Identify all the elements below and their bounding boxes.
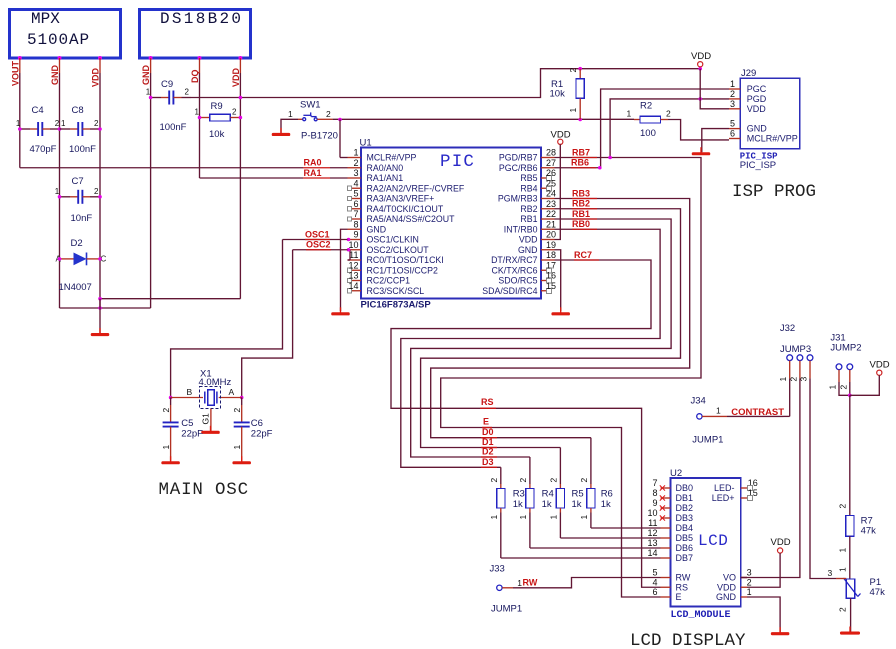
junction crystal B xyxy=(169,396,173,400)
wire VOUT to RA0 row xyxy=(20,167,303,169)
svg-text:VDD: VDD xyxy=(691,51,711,62)
svg-text:12: 12 xyxy=(647,528,657,538)
svg-text:CK/TX/RC6: CK/TX/RC6 xyxy=(492,265,538,275)
svg-text:47k: 47k xyxy=(861,526,877,537)
U2 pin 13 stub xyxy=(661,547,671,549)
diode D2 xyxy=(60,258,74,260)
svg-text:R2: R2 xyxy=(640,101,652,112)
svg-text:470pF: 470pF xyxy=(30,144,57,155)
U1 pin 15 stub xyxy=(541,290,547,292)
svg-text:2: 2 xyxy=(232,108,237,117)
wire RA1 to PIC pin 3 xyxy=(330,177,348,179)
junction rail-VDD symbol xyxy=(698,67,702,71)
J29 pin 1 stub xyxy=(729,88,740,90)
svg-text:2: 2 xyxy=(94,187,99,196)
wire RB0 net xyxy=(401,229,660,467)
svg-text:RA1: RA1 xyxy=(304,168,322,178)
junction C4-GND xyxy=(58,127,62,131)
svg-text:2: 2 xyxy=(579,478,589,483)
svg-text:OSC1: OSC1 xyxy=(305,229,330,239)
svg-text:6: 6 xyxy=(652,587,657,597)
sensor MPX5100AP box xyxy=(10,10,121,59)
svg-text:2: 2 xyxy=(730,89,735,99)
U2 pin 9 no-connect X xyxy=(660,505,665,510)
svg-text:LCD_MODULE: LCD_MODULE xyxy=(671,610,731,621)
svg-text:15: 15 xyxy=(546,281,556,291)
svg-text:RB3: RB3 xyxy=(572,188,590,198)
wire VDD rail xyxy=(191,69,700,98)
wire GND net bottom xyxy=(60,307,151,309)
svg-text:4: 4 xyxy=(353,178,358,188)
wire J31.2 down xyxy=(849,382,851,395)
svg-text:P-B1720: P-B1720 xyxy=(301,130,338,141)
U1 pin 6 stub xyxy=(352,208,361,210)
svg-text:R3: R3 xyxy=(513,489,525,500)
U1 pin 17 stub xyxy=(541,269,547,271)
svg-text:GND: GND xyxy=(747,124,768,134)
junction RB6-PGC xyxy=(598,166,602,170)
svg-text:PGM/RB3: PGM/RB3 xyxy=(498,194,538,204)
potentiometer P1 xyxy=(846,579,855,598)
svg-text:14: 14 xyxy=(647,548,657,558)
wire DQ to RA1 row xyxy=(200,177,304,179)
svg-text:11: 11 xyxy=(648,518,657,528)
svg-text:VDD: VDD xyxy=(747,104,767,114)
U1 pin 13 stub xyxy=(352,280,361,282)
svg-text:1: 1 xyxy=(61,119,66,128)
svg-text:PGD: PGD xyxy=(747,94,767,104)
jumper J32 pin 1 circle xyxy=(787,355,793,361)
U2 pin 8 no-connect X xyxy=(660,495,665,500)
junction VDD bottom xyxy=(98,297,102,301)
junction D2 anode xyxy=(58,257,62,261)
svg-text:10k: 10k xyxy=(209,129,225,140)
svg-text:DT/RX/RC7: DT/RX/RC7 xyxy=(491,255,538,265)
svg-text:RC1/T1OSI/CCP2: RC1/T1OSI/CCP2 xyxy=(367,265,438,275)
wire PGC (J29.1 to RB6) xyxy=(601,89,729,168)
J29 pin 6 stub xyxy=(729,138,740,140)
P1 wiper wire xyxy=(836,578,846,580)
svg-text:1k: 1k xyxy=(572,499,582,510)
svg-text:U1: U1 xyxy=(360,138,372,149)
U1 pin 15 no-connect square xyxy=(547,288,552,293)
svg-text:RW: RW xyxy=(523,578,538,588)
resistor R7 xyxy=(846,516,854,537)
junction D2 cathode xyxy=(98,257,102,261)
svg-text:2: 2 xyxy=(489,478,499,483)
U1 pin 7 stub xyxy=(352,218,361,220)
svg-text:2: 2 xyxy=(94,119,99,128)
svg-text:R9: R9 xyxy=(211,101,223,112)
svg-text:100nF: 100nF xyxy=(69,144,96,155)
SW1 pin2 stub xyxy=(317,118,332,120)
U1 pin 22 stub xyxy=(541,218,555,220)
U1 pin 19 stub xyxy=(541,249,555,251)
svg-text:1: 1 xyxy=(518,515,528,520)
svg-text:D2: D2 xyxy=(71,238,83,249)
svg-text:21: 21 xyxy=(546,219,556,229)
U2 pin 11 stub xyxy=(661,527,671,529)
svg-text:22: 22 xyxy=(546,209,556,219)
DS18B20 pin VDD dot xyxy=(238,56,242,60)
svg-text:1: 1 xyxy=(548,515,558,520)
junction C7 pin2 xyxy=(98,195,102,199)
jumper J31 pin 1 circle xyxy=(836,364,842,370)
svg-text:A: A xyxy=(229,387,235,397)
svg-text:1: 1 xyxy=(353,148,358,158)
svg-text:DQ: DQ xyxy=(190,70,200,84)
U2 pin 12 stub xyxy=(661,537,671,539)
svg-text:R4: R4 xyxy=(542,489,554,500)
svg-text:MCLR#/VPP: MCLR#/VPP xyxy=(747,134,798,144)
switch SW1 xyxy=(303,118,306,121)
svg-text:R5: R5 xyxy=(572,489,584,500)
U1 pin 27 stub xyxy=(541,167,555,169)
svg-text:C5: C5 xyxy=(181,418,193,429)
U1 pin 1 stub xyxy=(348,157,362,159)
svg-text:ISP PROG: ISP PROG xyxy=(732,182,816,202)
wire RB3 net xyxy=(431,199,690,438)
wire OSC1 run xyxy=(283,239,348,241)
svg-text:OSC1/CLKIN: OSC1/CLKIN xyxy=(367,235,419,245)
svg-text:LCD: LCD xyxy=(698,532,728,550)
U2 pin 1 stub xyxy=(741,596,747,598)
svg-text:DB2: DB2 xyxy=(676,503,694,513)
U1 pin 7 no-connect square xyxy=(347,217,351,221)
svg-text:10: 10 xyxy=(348,240,358,250)
svg-text:VOUT: VOUT xyxy=(10,60,20,86)
junction U1 pin10 xyxy=(347,248,351,252)
svg-text:47k: 47k xyxy=(870,587,886,598)
U2 pin 4 stub xyxy=(661,586,671,588)
U1 pin 17 no-connect square xyxy=(547,268,552,273)
wire U2 GND to ground xyxy=(747,597,780,632)
svg-text:MAIN OSC: MAIN OSC xyxy=(159,480,249,500)
ground bar (LCD) xyxy=(779,627,781,633)
svg-text:OSC2/CLKOUT: OSC2/CLKOUT xyxy=(367,245,430,255)
svg-text:1: 1 xyxy=(568,108,578,113)
resistor R1 xyxy=(579,69,581,79)
U2 pin 7 stub xyxy=(661,487,671,489)
wire RC7 net xyxy=(391,260,661,587)
svg-text:1k: 1k xyxy=(542,499,552,510)
wire VDD net bottom xyxy=(100,298,240,300)
svg-text:RA5/AN4/SS#/C2OUT: RA5/AN4/SS#/C2OUT xyxy=(367,214,456,224)
svg-text:C6: C6 xyxy=(251,418,263,429)
svg-text:1: 1 xyxy=(146,88,151,97)
svg-text:RB5: RB5 xyxy=(520,173,537,183)
svg-text:5: 5 xyxy=(353,189,358,199)
capacitor C6 xyxy=(241,398,243,406)
svg-text:26: 26 xyxy=(546,168,556,178)
wire VDD to J31 xyxy=(850,375,880,395)
wire P1 to ground xyxy=(850,598,852,631)
power VDD symbol (J31) xyxy=(877,370,882,375)
svg-text:6: 6 xyxy=(730,129,735,139)
wire DS VDD vertical xyxy=(239,58,241,73)
U1 pin 12 stub xyxy=(352,269,361,271)
svg-text:DB0: DB0 xyxy=(676,483,694,493)
svg-text:RB1: RB1 xyxy=(572,209,590,219)
U1 pin 28 stub xyxy=(541,157,555,159)
U2 pin 2 stub xyxy=(741,586,747,588)
svg-text:OSC2: OSC2 xyxy=(306,240,331,250)
J29 pin 5 stub xyxy=(729,128,740,130)
net label RB2 underline xyxy=(572,208,597,210)
U2 pin 9 stub xyxy=(661,507,671,509)
net label D1 underline xyxy=(481,447,497,449)
junction GND bottom xyxy=(98,306,102,310)
svg-text:4: 4 xyxy=(652,577,657,587)
ground bar (C6) xyxy=(241,456,243,462)
svg-text:2: 2 xyxy=(838,504,848,509)
U1 pin 10 stub xyxy=(348,249,362,251)
wire RA0 to PIC pin 2 xyxy=(330,167,348,169)
wire OSC2 run xyxy=(293,249,348,251)
svg-text:16: 16 xyxy=(546,271,556,281)
svg-text:2: 2 xyxy=(666,109,671,119)
wire U1 pin8 to ground xyxy=(341,229,348,311)
svg-text:RA2/AN2/VREF-/CVREF: RA2/AN2/VREF-/CVREF xyxy=(367,183,465,193)
svg-text:INT/RB0: INT/RB0 xyxy=(504,224,538,234)
U2 pin 15 stub xyxy=(741,497,747,499)
svg-text:RB7: RB7 xyxy=(572,147,590,157)
wire GND drop to ground xyxy=(99,299,101,308)
svg-text:J34: J34 xyxy=(691,396,706,407)
svg-text:PIC: PIC xyxy=(440,152,475,172)
U1 pin 3 stub xyxy=(348,177,362,179)
svg-text:SW1: SW1 xyxy=(300,100,321,111)
wire U2 VO row xyxy=(741,577,747,579)
svg-text:1: 1 xyxy=(232,445,242,450)
wire J32.3 to P1 wiper xyxy=(810,378,836,578)
svg-text:RA1/AN1: RA1/AN1 xyxy=(367,173,404,183)
U1 pin 8 stub xyxy=(348,228,362,230)
svg-text:1: 1 xyxy=(828,385,838,390)
junction crystal A xyxy=(240,396,244,400)
svg-text:2: 2 xyxy=(568,68,578,73)
svg-text:SDA/SDI/RC4: SDA/SDI/RC4 xyxy=(482,286,537,296)
svg-text:D1: D1 xyxy=(482,437,494,447)
U1 pin 25 no-connect square xyxy=(547,186,552,191)
svg-text:RS: RS xyxy=(676,582,689,592)
resistor R2 xyxy=(634,119,640,121)
jumper J31 pin 2 circle xyxy=(847,364,853,370)
svg-text:9: 9 xyxy=(353,230,358,240)
resistor R3 xyxy=(500,467,502,484)
svg-text:PGD/RB7: PGD/RB7 xyxy=(499,153,538,163)
svg-text:2: 2 xyxy=(747,577,752,587)
svg-text:J33: J33 xyxy=(490,564,505,575)
svg-text:C9: C9 xyxy=(161,79,173,90)
svg-text:20: 20 xyxy=(546,230,556,240)
wire U1 pin11 to pin10 net xyxy=(349,250,351,260)
U1 pin 12 no-connect square xyxy=(347,268,351,272)
svg-text:C7: C7 xyxy=(72,176,84,187)
svg-text:8: 8 xyxy=(652,488,657,498)
svg-text:5100AP: 5100AP xyxy=(27,31,90,49)
wire DQ vertical xyxy=(199,58,201,73)
U2 pin 10 stub xyxy=(661,517,671,519)
svg-text:1: 1 xyxy=(778,377,788,382)
svg-text:MPX: MPX xyxy=(31,10,60,28)
net label RC7 underline xyxy=(574,259,599,261)
svg-text:GND: GND xyxy=(141,65,151,86)
svg-text:VDD: VDD xyxy=(231,67,241,87)
svg-text:1: 1 xyxy=(161,445,171,450)
svg-text:1: 1 xyxy=(288,109,293,119)
svg-text:1: 1 xyxy=(838,548,848,553)
svg-text:2: 2 xyxy=(838,385,848,390)
svg-text:17: 17 xyxy=(546,260,556,270)
wire VDD to J29.3 xyxy=(700,69,729,109)
net label OSC2 underline xyxy=(306,249,331,251)
wire RB1 net xyxy=(411,219,671,457)
J32 pin 2 stub xyxy=(799,361,801,379)
svg-text:9: 9 xyxy=(652,498,657,508)
svg-text:PIC16F873A/SP: PIC16F873A/SP xyxy=(361,300,432,311)
net label RA1 underline xyxy=(303,177,330,179)
wire VOUT vertical xyxy=(19,58,21,73)
J34 stub xyxy=(702,415,727,417)
IC U1 box xyxy=(361,148,541,299)
MPX pin VOUT dot xyxy=(18,56,22,60)
net label RS underline xyxy=(480,407,496,409)
svg-text:RB2: RB2 xyxy=(572,199,590,209)
junction SW1-MCLR xyxy=(338,118,342,122)
svg-text:13: 13 xyxy=(348,271,358,281)
svg-text:1N4007: 1N4007 xyxy=(59,282,92,293)
svg-text:J29: J29 xyxy=(741,68,756,79)
svg-text:PGC/RB6: PGC/RB6 xyxy=(499,163,538,173)
wire RW net xyxy=(538,578,661,588)
svg-text:DB1: DB1 xyxy=(676,493,694,503)
MPX pin GND dot xyxy=(58,56,62,60)
ground bar (C5) xyxy=(170,456,172,462)
svg-text:12: 12 xyxy=(348,260,358,270)
ground bar (J29) xyxy=(700,147,702,153)
U2 pin 10 no-connect X xyxy=(660,515,665,520)
U2 pin 16 stub xyxy=(741,487,747,489)
svg-text:RA3/AN3/VREF+: RA3/AN3/VREF+ xyxy=(367,194,435,204)
wire J29.5 to ground xyxy=(702,129,729,153)
U1 pin 20 stub xyxy=(541,239,555,241)
wire OSC2 route to crystal xyxy=(242,250,293,398)
J32 pin 3 stub xyxy=(809,361,811,379)
svg-text:14: 14 xyxy=(348,281,358,291)
svg-text:2: 2 xyxy=(838,607,848,612)
svg-text:100: 100 xyxy=(640,128,656,139)
U1 pin 16 no-connect square xyxy=(547,278,552,283)
net label RB3 underline xyxy=(572,198,597,200)
svg-text:1: 1 xyxy=(195,108,200,117)
wire DS GND vertical xyxy=(150,58,152,73)
U2 pin 6 stub xyxy=(661,596,671,598)
wire RB7 net xyxy=(441,158,701,598)
svg-text:GND: GND xyxy=(367,224,387,234)
U1 pin 5 stub xyxy=(352,198,361,200)
svg-text:DB3: DB3 xyxy=(676,513,694,523)
wire PGD (J29.2 to RB7) xyxy=(610,99,729,158)
ground bar (X1) xyxy=(210,426,212,432)
U1 pin 14 no-connect square xyxy=(347,289,351,293)
wire VDD to U2 pin2 xyxy=(747,553,780,587)
svg-text:G1: G1 xyxy=(201,413,211,425)
U1 pin 11 stub xyxy=(348,259,362,261)
U2 pin 7 no-connect X xyxy=(660,485,665,490)
svg-text:JUMP1: JUMP1 xyxy=(491,604,522,615)
J31 pin 1 stub xyxy=(838,370,840,382)
svg-text:8: 8 xyxy=(353,219,358,229)
svg-text:PGC: PGC xyxy=(747,84,767,94)
svg-text:D3: D3 xyxy=(482,457,494,467)
junction C7 pin1 xyxy=(58,195,62,199)
svg-text:3: 3 xyxy=(730,99,735,109)
junction rail-DSVDD xyxy=(239,96,243,100)
svg-text:3: 3 xyxy=(828,568,833,578)
svg-text:1: 1 xyxy=(730,79,735,89)
svg-text:RB6: RB6 xyxy=(571,158,589,168)
svg-text:RA4/T0CKI/C1OUT: RA4/T0CKI/C1OUT xyxy=(367,204,444,214)
U1 pin 5 no-connect square xyxy=(347,196,351,200)
sensor DS18B20 box xyxy=(140,10,251,59)
svg-text:U2: U2 xyxy=(670,468,682,479)
wire U1 pin19 to ground xyxy=(555,250,561,311)
svg-text:GND: GND xyxy=(716,592,737,602)
wire J31.1 elbow xyxy=(839,382,850,395)
svg-text:VO: VO xyxy=(723,573,736,583)
U1 pin 6 no-connect square xyxy=(347,207,351,211)
U1 pin 21 stub xyxy=(541,228,555,230)
ground bar (U1 left) xyxy=(340,307,342,313)
jumper J33 pin circle xyxy=(497,585,502,590)
svg-text:CONTRAST: CONTRAST xyxy=(731,407,784,418)
junction U1 pin9 xyxy=(347,238,351,242)
svg-text:VDD: VDD xyxy=(717,582,737,592)
wire MCLR to PIC pin1 xyxy=(339,120,341,158)
svg-text:13: 13 xyxy=(647,538,657,548)
svg-text:4.0MHz: 4.0MHz xyxy=(199,377,232,388)
U1 pin 25 stub xyxy=(541,187,547,189)
U1 pin 2 stub xyxy=(348,167,362,169)
wire MCLR row xyxy=(333,118,634,120)
U1 pin 16 stub xyxy=(541,280,547,282)
svg-text:B: B xyxy=(187,387,193,397)
svg-text:1: 1 xyxy=(55,187,60,196)
svg-text:D0: D0 xyxy=(482,427,494,437)
junction C4-VOUT xyxy=(18,127,22,131)
svg-text:DB6: DB6 xyxy=(676,543,694,553)
svg-text:18: 18 xyxy=(546,250,556,260)
IC U2 box xyxy=(671,478,741,607)
jumper J34 pin circle xyxy=(697,414,702,419)
U1 pin 4 no-connect square xyxy=(347,186,351,190)
svg-text:2: 2 xyxy=(185,88,190,97)
svg-text:VDD: VDD xyxy=(771,537,791,548)
svg-text:DB7: DB7 xyxy=(676,553,694,563)
junction J31-VDD xyxy=(848,394,852,398)
svg-text:SDO/RC5: SDO/RC5 xyxy=(498,276,537,286)
J32 pin 1 stub xyxy=(789,361,791,379)
svg-text:RC7: RC7 xyxy=(574,250,592,260)
svg-text:1k: 1k xyxy=(601,499,611,510)
net label RB7 underline xyxy=(572,157,597,159)
svg-text:LED-: LED- xyxy=(714,483,735,493)
svg-text:2: 2 xyxy=(161,408,171,413)
svg-text:MCLR#/VPP: MCLR#/VPP xyxy=(367,153,417,163)
svg-text:5: 5 xyxy=(730,119,735,129)
svg-text:10: 10 xyxy=(647,508,657,518)
